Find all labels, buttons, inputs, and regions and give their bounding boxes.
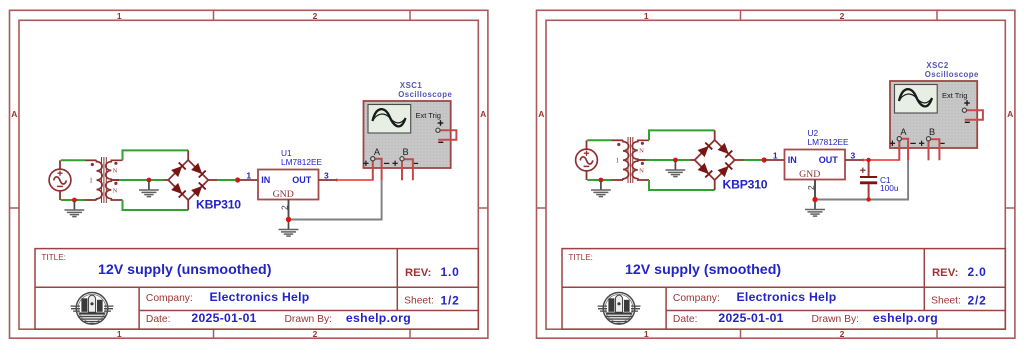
svg-text:Date:: Date: — [146, 314, 171, 325]
title block logo column divider — [138, 287, 140, 329]
svg-text:OUT: OUT — [292, 175, 312, 185]
svg-text:Sheet:: Sheet: — [931, 295, 961, 306]
bridge rectifier D1 KBP310 — [164, 150, 242, 211]
svg-text:Date:: Date: — [673, 314, 698, 325]
svg-text:A: A — [480, 109, 486, 119]
border outer frame — [10, 10, 488, 338]
wire secondary top rail — [123, 150, 189, 160]
transformer T1 — [89, 157, 122, 203]
svg-text:1.0: 1.0 — [441, 265, 460, 279]
svg-text:A: A — [900, 127, 907, 137]
svg-text:1: 1 — [117, 11, 122, 21]
wire bridge output green — [744, 159, 762, 161]
wire source bottom green — [587, 179, 611, 181]
zone tick marks — [213, 10, 215, 20]
junction dot regulator ground overlay — [812, 197, 817, 202]
wire source top green — [61, 159, 85, 161]
svg-text:3: 3 — [324, 170, 329, 180]
svg-text:1: 1 — [773, 151, 778, 161]
wire out vertical to scope A+ — [898, 139, 900, 161]
svg-text:2: 2 — [280, 205, 290, 210]
svg-text:Drawn By:: Drawn By: — [812, 314, 860, 325]
ext trig terminal — [962, 108, 966, 112]
ext trig wire loop — [965, 110, 983, 120]
border outer frame — [537, 10, 1015, 338]
svg-text:OUT: OUT — [819, 155, 839, 165]
AC voltage source V2 — [576, 140, 598, 180]
wire secondary bottom rail — [123, 200, 189, 210]
svg-text:KBP310: KBP310 — [196, 198, 241, 212]
svg-text:XSC1: XSC1 — [400, 81, 423, 90]
wire source top green — [587, 139, 611, 141]
svg-text:IN: IN — [261, 175, 270, 185]
logo emblem — [71, 293, 114, 325]
svg-text:Electronics Help: Electronics Help — [210, 290, 310, 304]
svg-text:Oscilloscope: Oscilloscope — [925, 70, 979, 79]
svg-text:1: 1 — [644, 11, 649, 21]
wire bridge output green — [217, 179, 235, 181]
title block rev column divider — [396, 249, 398, 311]
ext trig wire loop — [438, 130, 456, 140]
svg-text:TITLE:: TITLE: — [41, 253, 66, 262]
wire scope A- red segment — [373, 159, 381, 181]
svg-text:Ext Trig: Ext Trig — [416, 111, 441, 120]
svg-text:100u: 100u — [880, 183, 899, 193]
svg-text:A: A — [374, 147, 381, 157]
wire scope A- red segment — [900, 139, 908, 161]
svg-text:1: 1 — [616, 157, 620, 165]
ground regulator — [805, 201, 825, 217]
wire source bottom red — [85, 199, 97, 201]
pin 3 end dot — [862, 159, 865, 162]
junction dot primary ground — [599, 178, 604, 183]
svg-text:1: 1 — [246, 171, 251, 181]
svg-text:Drawn By:: Drawn By: — [285, 314, 333, 325]
svg-text:1/2: 1/2 — [441, 293, 460, 307]
svg-text:KBP310: KBP310 — [723, 178, 768, 192]
svg-text:Sheet:: Sheet: — [404, 295, 434, 306]
svg-text:A: A — [11, 109, 17, 119]
oscilloscope XSC2 — [890, 61, 979, 148]
oscilloscope XSC1 — [363, 81, 452, 168]
channel A terminal overlay — [897, 137, 901, 141]
svg-text:2025-01-01: 2025-01-01 — [718, 311, 783, 325]
pin 1 stub — [238, 179, 258, 181]
bridge rectifier D2 KBP310 — [690, 130, 768, 191]
ground center tap — [139, 181, 159, 197]
svg-text:N: N — [113, 168, 118, 175]
svg-text:3: 3 — [851, 150, 856, 160]
title block row divider 2 — [139, 310, 478, 312]
svg-text:XSC2: XSC2 — [926, 61, 949, 70]
junction dot regulator input — [235, 177, 240, 182]
svg-text:B: B — [403, 147, 409, 157]
wire out vertical to scope A+ — [372, 159, 374, 181]
svg-text:REV:: REV: — [932, 267, 958, 279]
border inner frame — [546, 20, 1005, 329]
wire center tap green — [646, 159, 691, 161]
junction dot capacitor bottom — [866, 197, 870, 201]
svg-text:REV:: REV: — [405, 267, 431, 279]
pin 3 stub — [319, 179, 338, 181]
wire out bright red — [864, 159, 900, 161]
svg-text:2/2: 2/2 — [968, 293, 987, 307]
svg-text:1: 1 — [117, 329, 122, 339]
title block row divider 1 — [562, 286, 1005, 288]
ground regulator — [279, 221, 299, 237]
ground primary — [65, 201, 85, 217]
voltage regulator U1 LM7812EE — [258, 148, 323, 200]
channel A terminal — [371, 157, 375, 161]
svg-text:N: N — [113, 188, 118, 195]
svg-text:Oscilloscope: Oscilloscope — [398, 90, 452, 99]
svg-text:2025-01-01: 2025-01-01 — [191, 311, 256, 325]
junction dot regulator ground — [286, 217, 291, 222]
svg-text:eshelp.org: eshelp.org — [873, 311, 938, 325]
zone tick marks — [740, 10, 742, 20]
wire source top red — [85, 159, 97, 161]
channel B terminal — [926, 137, 930, 141]
svg-text:1: 1 — [644, 329, 649, 339]
title block logo column divider — [665, 287, 667, 329]
wire source bottom green — [61, 199, 85, 201]
wire secondary bottom rail — [649, 180, 715, 190]
svg-text:IN: IN — [788, 155, 797, 165]
capacitor C1 100u — [860, 160, 899, 200]
svg-text:1: 1 — [89, 177, 93, 185]
channel A terminal — [897, 137, 901, 141]
svg-text:N: N — [639, 148, 644, 155]
svg-text:2: 2 — [313, 11, 318, 21]
channel B stubs — [401, 159, 403, 181]
svg-text:2: 2 — [840, 11, 845, 21]
wire out bright red — [337, 179, 373, 181]
voltage regulator U2 LM7812EE — [785, 128, 850, 180]
svg-text:GND: GND — [273, 189, 294, 200]
pin 3 end dot — [336, 179, 339, 182]
junction dot center tap — [147, 178, 152, 183]
svg-text:Company:: Company: — [673, 293, 720, 304]
border inner frame — [19, 20, 478, 329]
title block outline — [35, 249, 478, 330]
svg-text:2: 2 — [840, 329, 845, 339]
logo emblem — [598, 293, 641, 325]
title block row divider 2 — [666, 310, 1005, 312]
wire source bottom red — [611, 179, 623, 181]
title block rev column divider — [923, 249, 925, 311]
ext trig minus sign — [438, 141, 443, 143]
svg-text:A: A — [538, 109, 544, 119]
ground primary — [591, 181, 611, 197]
svg-text:LM7812EE: LM7812EE — [808, 137, 850, 147]
channel B terminal — [400, 157, 404, 161]
channel A terminal overlay — [371, 157, 375, 161]
channel B stubs — [928, 139, 930, 161]
svg-text:GND: GND — [799, 169, 820, 180]
svg-text:Ext Trig: Ext Trig — [942, 91, 967, 100]
wire center tap green — [119, 179, 164, 181]
pin 2 stub — [814, 180, 816, 200]
wire scope A- gray to ground — [815, 161, 908, 200]
svg-text:B: B — [929, 127, 935, 137]
ext trig terminal — [436, 128, 440, 132]
ground center tap — [666, 161, 686, 177]
svg-text:Company:: Company: — [146, 293, 193, 304]
wire secondary top rail — [649, 130, 715, 140]
ext trig minus sign — [965, 121, 970, 123]
transformer T2 — [616, 137, 649, 183]
pin 2 stub — [288, 200, 290, 220]
svg-text:eshelp.org: eshelp.org — [346, 311, 411, 325]
svg-text:Electronics Help: Electronics Help — [737, 290, 837, 304]
title block outline — [562, 249, 1005, 330]
svg-text:2: 2 — [313, 329, 318, 339]
junction dot regulator ground — [812, 197, 817, 202]
svg-text:LM7812EE: LM7812EE — [281, 157, 323, 167]
wire scope A- gray to ground — [289, 181, 382, 220]
svg-text:2.0: 2.0 — [968, 265, 987, 279]
svg-text:12V supply (smoothed): 12V supply (smoothed) — [625, 262, 781, 278]
svg-text:N: N — [639, 168, 644, 175]
wire source top red — [612, 139, 624, 141]
title block row divider 1 — [35, 286, 478, 288]
junction dot primary ground — [72, 198, 77, 203]
pin 1 stub — [764, 159, 784, 161]
junction dot center tap — [673, 158, 678, 163]
AC voltage source V1 — [49, 160, 71, 200]
junction dot regulator ground overlay — [286, 217, 291, 222]
svg-text:12V supply (unsmoothed): 12V supply (unsmoothed) — [98, 262, 272, 278]
svg-text:TITLE:: TITLE: — [568, 253, 593, 262]
junction dot capacitor top — [866, 158, 870, 162]
svg-text:2: 2 — [806, 185, 816, 190]
pin 3 stub — [845, 159, 864, 161]
svg-text:A: A — [1007, 109, 1013, 119]
junction dot regulator input — [762, 157, 767, 162]
